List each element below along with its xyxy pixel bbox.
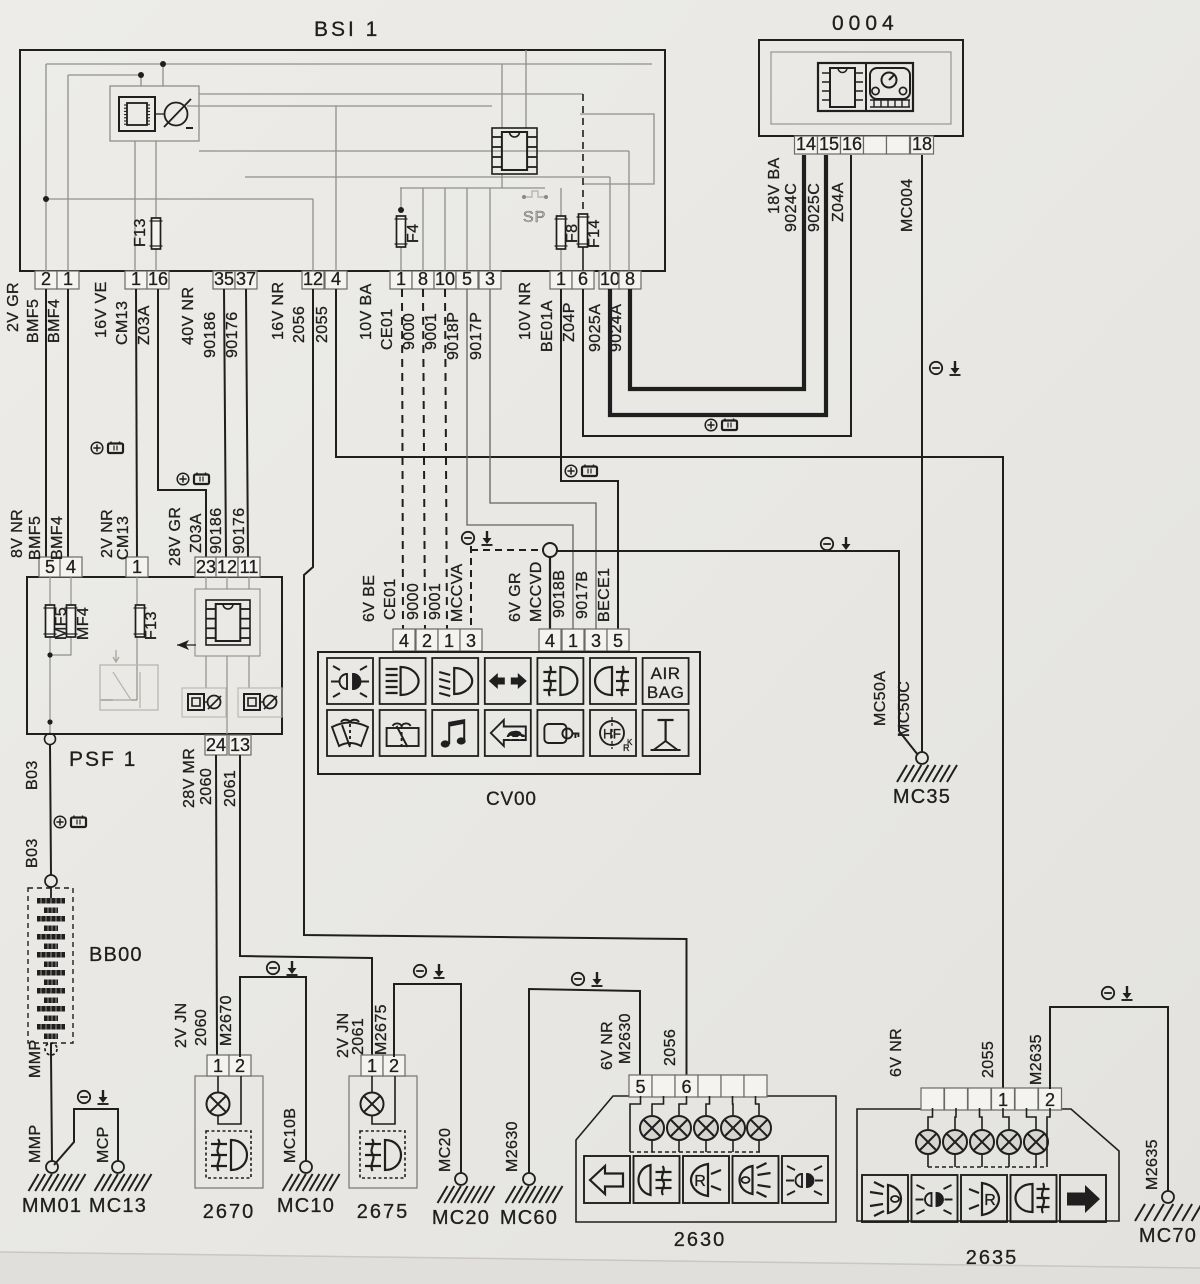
wire M2675 to MC20 <box>394 984 461 1173</box>
wire CE01 dashed <box>402 289 403 629</box>
2635 bulb feeds <box>928 1108 933 1130</box>
wire 2055 <box>336 289 1003 1089</box>
svg-text:2: 2 <box>422 631 432 651</box>
svg-text:2630: 2630 <box>674 1229 727 1251</box>
svg-text:6V GR: 6V GR <box>507 572 524 622</box>
svg-text:2056: 2056 <box>291 306 308 343</box>
svg-text:9025A: 9025A <box>587 304 604 352</box>
svg-text:2056: 2056 <box>662 1029 679 1066</box>
svg-text:M2635: M2635 <box>1028 1034 1045 1085</box>
splice node MCCVD <box>543 543 557 557</box>
switch contact S1 in PSF1 <box>182 688 226 717</box>
svg-text:18: 18 <box>912 134 932 154</box>
ground mark on M2675 <box>414 964 445 978</box>
2635 connector pins <box>921 1088 944 1110</box>
2675 fog icon <box>360 1131 405 1178</box>
svg-text:4: 4 <box>545 631 555 651</box>
svg-text:2: 2 <box>389 1056 399 1076</box>
svg-text:HF: HF <box>603 727 621 742</box>
CV00 wiper icon <box>327 710 373 756</box>
cluster icon: gauge <box>870 68 910 99</box>
svg-text:90176: 90176 <box>224 312 241 359</box>
battery connector node <box>45 875 57 887</box>
svg-text:16V NR: 16V NR <box>270 282 287 340</box>
svg-text:MC20: MC20 <box>437 1128 454 1172</box>
svg-text:1: 1 <box>367 1056 377 1076</box>
svg-text:Z03A: Z03A <box>188 513 205 553</box>
svg-text:28V GR: 28V GR <box>167 507 184 566</box>
2670 bulb <box>207 1093 230 1116</box>
svg-text:8: 8 <box>418 269 428 289</box>
wire BMF4 <box>67 289 69 557</box>
svg-text:15: 15 <box>819 134 839 154</box>
svg-text:1: 1 <box>396 269 406 289</box>
ground MC35 <box>916 752 928 764</box>
svg-text:6: 6 <box>681 1077 691 1097</box>
svg-text:BSI 1: BSI 1 <box>314 18 380 41</box>
svg-text:2V JN: 2V JN <box>173 1002 190 1048</box>
svg-text:1: 1 <box>132 557 142 577</box>
svg-text:40V NR: 40V NR <box>180 287 197 345</box>
ground MC20 <box>455 1173 467 1185</box>
svg-text:2: 2 <box>1045 1090 1055 1110</box>
svg-text:MCP: MCP <box>95 1126 112 1163</box>
splice SP (faint) <box>526 191 544 197</box>
svg-text:90176: 90176 <box>231 508 248 555</box>
svg-text:18V BA: 18V BA <box>766 157 783 214</box>
2630 connector pins <box>629 1075 652 1097</box>
paper bottom edge <box>0 1252 1200 1284</box>
2630 rear fog icon <box>634 1156 680 1203</box>
svg-text:5: 5 <box>462 269 472 289</box>
svg-text:MF4: MF4 <box>75 607 92 640</box>
2630 reverse icon <box>683 1156 729 1203</box>
CV00 chime icon <box>432 710 478 756</box>
svg-text:2060: 2060 <box>193 1009 210 1046</box>
CV00 rear fog icon <box>590 658 636 704</box>
wire MMP <box>50 1043 52 1055</box>
svg-text:1: 1 <box>998 1090 1008 1110</box>
svg-text:9000: 9000 <box>401 313 418 350</box>
svg-text:AIR: AIR <box>651 664 681 683</box>
CV00 car door icon <box>485 710 531 756</box>
svg-text:11: 11 <box>240 557 259 577</box>
svg-text:12: 12 <box>217 557 237 577</box>
wire 2061 <box>240 755 372 1055</box>
ground mark on M2635 <box>1102 986 1133 1000</box>
svg-text:3: 3 <box>591 631 601 651</box>
cluster icon: chip <box>818 63 913 111</box>
svg-text:M2630: M2630 <box>617 1013 634 1064</box>
wire 9025A/9025C heavy <box>610 155 826 415</box>
wire BMF5 <box>45 289 47 557</box>
svg-text:2055: 2055 <box>980 1041 997 1078</box>
ground mark on MCCVA <box>462 531 493 545</box>
2635 bulbs <box>916 1130 940 1154</box>
svg-text:1: 1 <box>444 631 454 651</box>
svg-text:9025C: 9025C <box>806 183 823 232</box>
PSF1 top pins <box>39 557 61 577</box>
svg-text:37: 37 <box>236 269 256 289</box>
svg-text:9018B: 9018B <box>551 570 568 618</box>
svg-text:F13: F13 <box>143 611 160 640</box>
svg-text:1: 1 <box>568 631 578 651</box>
wire Z03A <box>158 289 206 557</box>
svg-text:6V NR: 6V NR <box>599 1021 616 1070</box>
svg-text:10: 10 <box>600 269 620 289</box>
svg-text:35: 35 <box>214 269 234 289</box>
engine fusebox PSF1 <box>27 577 282 734</box>
svg-text:B03: B03 <box>24 760 41 790</box>
wire 90176 <box>246 289 248 557</box>
svg-text:6: 6 <box>578 269 588 289</box>
svg-text:3: 3 <box>485 269 495 289</box>
2635 position light icon <box>912 1175 958 1222</box>
IC chip U1 inside BS11 <box>492 128 537 174</box>
wire 9001 dashed <box>445 289 447 629</box>
svg-text:BMF4: BMF4 <box>46 299 63 343</box>
0004 connector pins <box>795 136 818 154</box>
fuse MF4 <box>67 605 76 637</box>
battery mark on 9024 feed <box>705 419 737 431</box>
2635 common bus <box>928 1166 1047 1168</box>
svg-text:R: R <box>694 1173 706 1190</box>
svg-text:2061: 2061 <box>350 1018 367 1055</box>
wire 9017P/9017B <box>490 289 596 629</box>
svg-text:MMP: MMP <box>27 1039 44 1078</box>
2630 tail light icon <box>733 1156 779 1203</box>
svg-text:CM13: CM13 <box>114 301 131 345</box>
svg-text:24: 24 <box>206 735 226 755</box>
svg-text:10V BA: 10V BA <box>358 283 375 340</box>
instrument cluster 0004 <box>759 40 963 136</box>
2675 bulb <box>361 1093 384 1116</box>
wire 9000 dashed <box>423 289 425 629</box>
svg-text:1: 1 <box>213 1056 223 1076</box>
svg-text:8: 8 <box>625 269 635 289</box>
svg-text:9001: 9001 <box>423 313 440 350</box>
wire MC50A <box>557 551 918 755</box>
fuse F8 <box>557 216 566 249</box>
svg-text:2675: 2675 <box>357 1201 410 1223</box>
svg-text:2060: 2060 <box>198 768 215 805</box>
CV00 connector pins <box>393 629 415 651</box>
svg-text:BAG: BAG <box>647 683 684 702</box>
svg-text:9000: 9000 <box>405 583 422 620</box>
fuse F4 <box>397 216 406 247</box>
svg-text:Z04A: Z04A <box>830 182 847 222</box>
svg-text:0004: 0004 <box>832 12 899 35</box>
PSF1 internal wires <box>50 577 249 734</box>
svg-text:MMP: MMP <box>27 1124 44 1163</box>
battery mark on Z03A <box>177 473 209 485</box>
front fog lamp 2670 <box>195 1076 263 1188</box>
wire 9024A/9024C heavy <box>630 155 804 389</box>
svg-text:6V BE: 6V BE <box>361 575 378 622</box>
ground MM01 <box>46 1161 58 1173</box>
CV00 turn signal icon <box>485 658 531 704</box>
svg-text:9017P: 9017P <box>468 312 485 360</box>
ground MC70 <box>1162 1191 1174 1203</box>
CV00 airbag icon <box>643 658 689 704</box>
wire MCP to MC13 <box>54 1109 118 1165</box>
svg-text:MC35: MC35 <box>893 786 951 808</box>
svg-text:MCCVD: MCCVD <box>528 561 545 622</box>
2670 fog icon <box>206 1131 251 1178</box>
svg-text:90186: 90186 <box>202 312 219 359</box>
arrow to chip <box>177 640 189 650</box>
svg-text:10V NR: 10V NR <box>517 282 534 340</box>
CV00 key icon <box>537 710 583 756</box>
wire MCCVA dashed <box>470 546 472 629</box>
svg-text:1: 1 <box>63 269 73 289</box>
svg-text:14: 14 <box>796 134 816 154</box>
svg-text:28V MR: 28V MR <box>181 748 198 808</box>
svg-text:MC004: MC004 <box>899 178 916 232</box>
2635 turn arrow icon <box>1060 1175 1106 1222</box>
warning lamp cluster CV00 <box>318 652 700 774</box>
svg-text:5: 5 <box>613 631 623 651</box>
svg-text:4: 4 <box>399 631 409 651</box>
PSF1 bottom pins <box>205 735 227 755</box>
2635 tail light icon <box>862 1175 908 1222</box>
svg-text:CE01: CE01 <box>379 308 396 350</box>
switch contact S2 in PSF1 <box>238 688 282 717</box>
svg-text:9024C: 9024C <box>783 183 800 232</box>
CV00 low beam icon <box>432 658 478 704</box>
2635 rear fog icon <box>1011 1175 1057 1222</box>
svg-text:23: 23 <box>196 557 216 577</box>
svg-text:4: 4 <box>66 557 76 577</box>
ground MC10 <box>300 1161 312 1173</box>
svg-text:PSF 1: PSF 1 <box>69 748 137 771</box>
svg-text:M2670: M2670 <box>218 995 235 1046</box>
front fog lamp 2675 <box>349 1076 417 1188</box>
2630 position light icon <box>782 1156 828 1203</box>
svg-text:12: 12 <box>303 269 323 289</box>
wire B03 <box>45 734 56 745</box>
battery BB00 <box>28 888 73 1043</box>
rear lamp cluster 2630 <box>576 1096 836 1222</box>
svg-text:BE01A: BE01A <box>539 300 556 352</box>
svg-text:F13: F13 <box>132 218 149 247</box>
svg-text:BB00: BB00 <box>89 944 143 966</box>
svg-text:MC60: MC60 <box>500 1207 558 1229</box>
wire MCCVD <box>549 557 551 629</box>
svg-text:1: 1 <box>556 269 566 289</box>
wire M2635 to MC70 <box>1050 1007 1168 1191</box>
svg-text:9001: 9001 <box>427 583 444 620</box>
svg-text:2670: 2670 <box>203 1201 256 1223</box>
svg-text:13: 13 <box>230 735 250 755</box>
fuse MF5 <box>46 605 55 637</box>
2630 bulb feeds <box>630 1096 641 1152</box>
ground mark on MC004 <box>930 361 961 375</box>
svg-text:M2635: M2635 <box>1144 1139 1161 1190</box>
svg-text:2635: 2635 <box>966 1247 1019 1269</box>
CV00 side lights icon <box>327 658 373 704</box>
svg-text:Z04P: Z04P <box>561 302 578 342</box>
svg-text:2055: 2055 <box>314 306 331 343</box>
svg-text:3: 3 <box>466 631 476 651</box>
svg-text:F4: F4 <box>405 224 422 243</box>
svg-text:6V NR: 6V NR <box>888 1028 905 1077</box>
rear lamp cluster 2635 <box>857 1109 1119 1221</box>
svg-text:MCCVA: MCCVA <box>449 563 466 622</box>
2630 turn arrow icon <box>584 1156 630 1203</box>
svg-text:16: 16 <box>148 269 168 289</box>
BS11 connector pins <box>35 271 57 289</box>
2635 reverse icon <box>961 1175 1007 1222</box>
battery mark on BE01A <box>565 465 597 477</box>
svg-text:2: 2 <box>235 1056 245 1076</box>
CV00 high beam icon <box>380 658 426 704</box>
wire M2670 to MC10 <box>240 977 306 1161</box>
svg-text:2: 2 <box>41 269 51 289</box>
svg-text:CM13: CM13 <box>115 516 132 560</box>
ground MC13 <box>112 1161 124 1173</box>
svg-text:16V VE: 16V VE <box>93 281 110 338</box>
battery mark on B03 <box>54 816 86 828</box>
svg-text:MC10B: MC10B <box>282 1108 299 1163</box>
svg-text:B03: B03 <box>24 838 41 868</box>
svg-text:M2675: M2675 <box>373 1004 390 1055</box>
svg-text:MM01: MM01 <box>22 1195 82 1217</box>
svg-text:9017B: 9017B <box>574 571 591 619</box>
fuse F13 <box>152 218 161 249</box>
battery mark on CM13 <box>91 442 123 454</box>
IC chip in PSF1 <box>195 589 260 656</box>
svg-text:BMF4: BMF4 <box>49 516 66 560</box>
svg-text:K: K <box>627 738 633 747</box>
svg-text:9024A: 9024A <box>608 304 625 352</box>
BB00 bottom node <box>45 1043 57 1055</box>
2630 bulbs <box>640 1116 664 1140</box>
svg-text:5: 5 <box>635 1077 645 1097</box>
fuse F13 in PSF1 <box>136 605 145 637</box>
svg-text:MC10: MC10 <box>277 1195 335 1217</box>
CV00 front fog icon <box>537 658 583 704</box>
wire Z04P/Z04A <box>583 155 851 436</box>
svg-text:CV00: CV00 <box>486 789 537 810</box>
ground mark on MC50A <box>821 537 852 551</box>
svg-text:SP: SP <box>523 209 546 226</box>
relay K1 inside BS11 <box>110 86 199 141</box>
svg-text:9018P: 9018P <box>445 312 462 360</box>
BS11 internal wiring web <box>46 50 654 271</box>
svg-text:BECE1: BECE1 <box>596 568 613 622</box>
svg-text:10: 10 <box>435 269 455 289</box>
svg-text:CE01: CE01 <box>382 578 399 620</box>
svg-text:1: 1 <box>131 269 141 289</box>
ground mark on M2670 <box>267 961 298 975</box>
svg-text:2061: 2061 <box>222 770 239 807</box>
svg-text:90186: 90186 <box>208 508 225 555</box>
svg-text:16: 16 <box>842 134 862 154</box>
svg-text:MC20: MC20 <box>432 1207 490 1229</box>
BSI control unit BS11 <box>20 50 665 271</box>
CV00 HF icon <box>590 710 636 756</box>
wire 90186 <box>224 289 226 557</box>
svg-text:2V GR: 2V GR <box>5 282 22 332</box>
wire 9018P/9018B <box>467 289 573 629</box>
wire BE01A/BECE1 <box>561 289 618 629</box>
svg-text:2V NR: 2V NR <box>99 509 116 558</box>
svg-text:8V NR: 8V NR <box>9 509 26 558</box>
svg-text:Z03A: Z03A <box>136 305 153 345</box>
svg-text:BMF5: BMF5 <box>25 299 42 343</box>
svg-text:R: R <box>984 1192 996 1209</box>
wire 2060 <box>216 755 217 1055</box>
svg-text:F14: F14 <box>586 219 603 248</box>
svg-text:4: 4 <box>331 269 341 289</box>
CV00 rear wiper icon <box>380 710 426 756</box>
wire MC004/MC50C <box>921 155 923 752</box>
wire 2056 <box>304 289 687 1077</box>
2630 common bus <box>630 1151 762 1153</box>
ground mark on MCP <box>78 1090 109 1104</box>
fuse F14 <box>579 214 588 247</box>
BS11 internal dashed link Z04P <box>582 94 584 214</box>
svg-text:MC13: MC13 <box>89 1195 147 1217</box>
wire CM13 <box>136 289 137 557</box>
svg-text:MC70: MC70 <box>1139 1225 1197 1247</box>
CV00 antenna icon <box>643 710 689 756</box>
faint relay in PSF1 <box>100 650 158 710</box>
wire M2630 to MC60 <box>529 989 640 1173</box>
svg-text:MC50A: MC50A <box>872 671 889 726</box>
svg-text:M2630: M2630 <box>504 1121 521 1172</box>
transistor symbol in relay <box>165 103 188 126</box>
ground MC60 <box>523 1173 535 1185</box>
ground mark on M2630 <box>572 972 603 986</box>
svg-text:BMF5: BMF5 <box>27 516 44 560</box>
